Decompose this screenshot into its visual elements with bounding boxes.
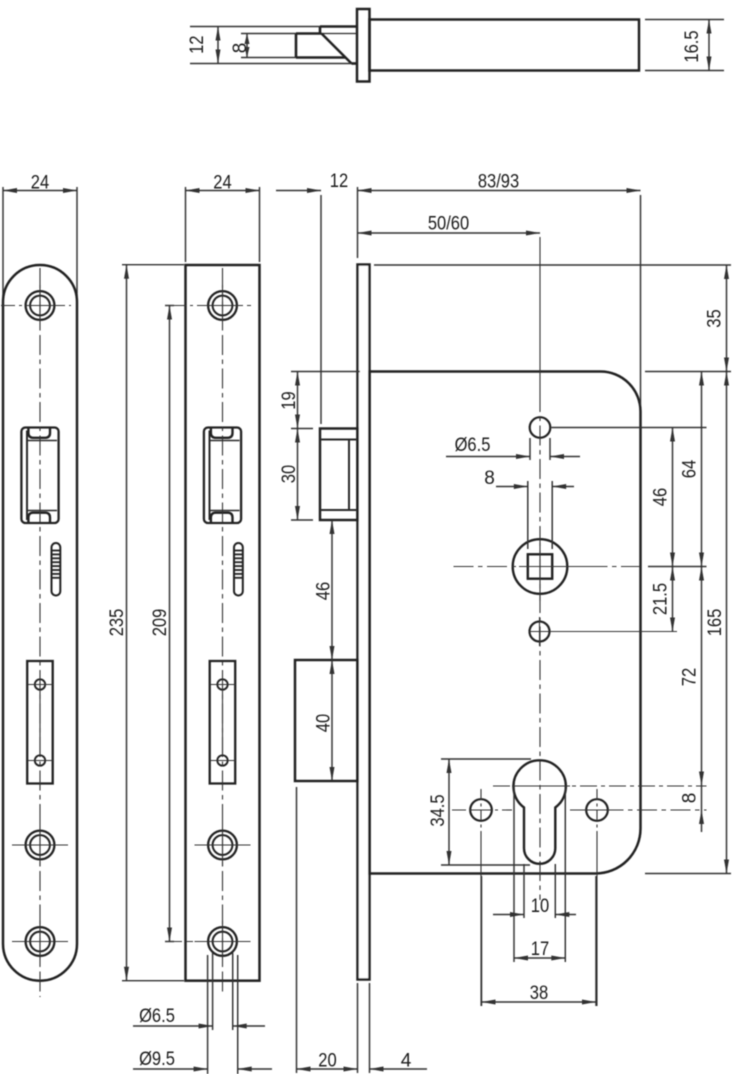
svg-text:16.5: 16.5 xyxy=(682,30,703,62)
svg-text:8: 8 xyxy=(484,468,495,489)
svg-text:24: 24 xyxy=(213,173,232,194)
svg-text:38: 38 xyxy=(530,983,548,1004)
svg-text:8: 8 xyxy=(680,793,701,804)
svg-text:Ø9.5: Ø9.5 xyxy=(139,1049,175,1070)
svg-text:4: 4 xyxy=(401,1051,412,1072)
svg-text:30: 30 xyxy=(279,465,300,483)
svg-text:12: 12 xyxy=(187,36,208,54)
svg-text:20: 20 xyxy=(318,1051,336,1072)
svg-text:235: 235 xyxy=(107,609,128,637)
svg-text:34.5: 34.5 xyxy=(428,794,449,826)
svg-text:209: 209 xyxy=(150,609,171,637)
svg-text:165: 165 xyxy=(705,609,726,637)
svg-text:64: 64 xyxy=(680,459,701,478)
svg-text:83/93: 83/93 xyxy=(478,172,519,193)
svg-text:50/60: 50/60 xyxy=(428,214,469,235)
svg-text:46: 46 xyxy=(314,582,335,600)
svg-text:17: 17 xyxy=(531,939,549,960)
svg-text:Ø6.5: Ø6.5 xyxy=(139,1006,175,1027)
svg-text:19: 19 xyxy=(279,391,300,409)
svg-text:Ø6.5: Ø6.5 xyxy=(455,435,491,456)
svg-text:35: 35 xyxy=(705,309,726,327)
svg-text:72: 72 xyxy=(680,668,701,686)
svg-text:21.5: 21.5 xyxy=(651,583,672,615)
svg-text:24: 24 xyxy=(31,173,50,194)
svg-text:40: 40 xyxy=(314,714,335,732)
svg-text:12: 12 xyxy=(330,171,348,192)
svg-text:10: 10 xyxy=(531,896,549,917)
svg-text:8: 8 xyxy=(230,43,251,54)
svg-text:46: 46 xyxy=(651,488,672,506)
